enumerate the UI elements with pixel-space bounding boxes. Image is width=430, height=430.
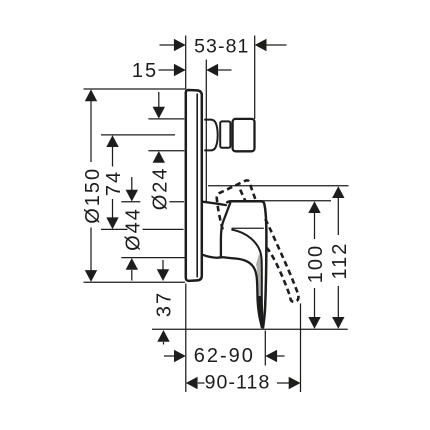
extension line handle top — [260, 200, 332, 202]
svg-text:15: 15 — [132, 60, 158, 82]
escutcheon plate contour line — [196, 94, 198, 278]
svg-text:112: 112 — [329, 242, 351, 280]
handle neck upper curve — [232, 230, 263, 327]
handle grip dark tip fill — [257, 296, 263, 328]
extension line hub bottom — [121, 257, 185, 259]
handle hub top edge — [203, 202, 226, 205]
spout sleeve — [205, 120, 218, 151]
svg-text:37: 37 — [154, 291, 176, 317]
dimension D44 — [122, 177, 144, 281]
dimension D24 — [149, 92, 171, 210]
svg-text:Ø44: Ø44 — [122, 207, 144, 251]
extension line plate centre — [208, 185, 349, 187]
extension line raised lever front — [300, 304, 302, 393]
extension line handle axis — [101, 228, 184, 230]
extension line wall plane — [205, 60, 207, 202]
extension line plate front — [185, 36, 187, 90]
spout end cap — [233, 119, 255, 151]
svg-text:53-81: 53-81 — [194, 36, 249, 58]
svg-text:74: 74 — [103, 170, 125, 196]
extension line knob top — [148, 118, 184, 120]
svg-text:100: 100 — [305, 244, 327, 283]
dimension 53-81 — [160, 36, 287, 58]
extension line bottom of plate — [84, 281, 186, 283]
dashed raised lever back and top — [217, 180, 256, 229]
handle grip grey throat shading — [256, 254, 262, 300]
dashed raised lever inner short segment — [240, 190, 245, 201]
pipe axis line — [152, 328, 348, 330]
handle blade underside line — [232, 227, 264, 229]
svg-text:Ø150: Ø150 — [82, 167, 104, 224]
extension line knob end — [254, 36, 256, 120]
dimension 37 — [154, 260, 176, 345]
escutcheon plate outline — [186, 90, 202, 281]
extension line spout axis — [101, 134, 175, 136]
handle blade and grip outer edge — [227, 201, 266, 327]
dashed raised lever grip — [265, 219, 298, 302]
handle hub bottom and grip inner edge — [203, 255, 262, 327]
handle blade back edge — [221, 202, 231, 257]
dimension 112 — [329, 186, 351, 329]
extension line top of plate — [84, 88, 186, 90]
svg-text:90-118: 90-118 — [205, 372, 271, 394]
extension line lever front — [264, 331, 266, 366]
extension line below plate front — [185, 284, 187, 393]
svg-text:62-90: 62-90 — [194, 345, 255, 367]
dimension 74 — [103, 135, 125, 229]
extension line hub top — [121, 201, 184, 203]
dimension 90-118 — [186, 372, 301, 394]
dimension 62-90 — [164, 345, 285, 367]
dimension 15 — [132, 60, 232, 82]
dimension D150 — [82, 89, 104, 282]
svg-text:Ø24: Ø24 — [149, 166, 171, 210]
spout cylinder — [220, 121, 230, 147]
dimension 100 — [305, 201, 327, 329]
extension line knob bottom — [148, 150, 184, 152]
